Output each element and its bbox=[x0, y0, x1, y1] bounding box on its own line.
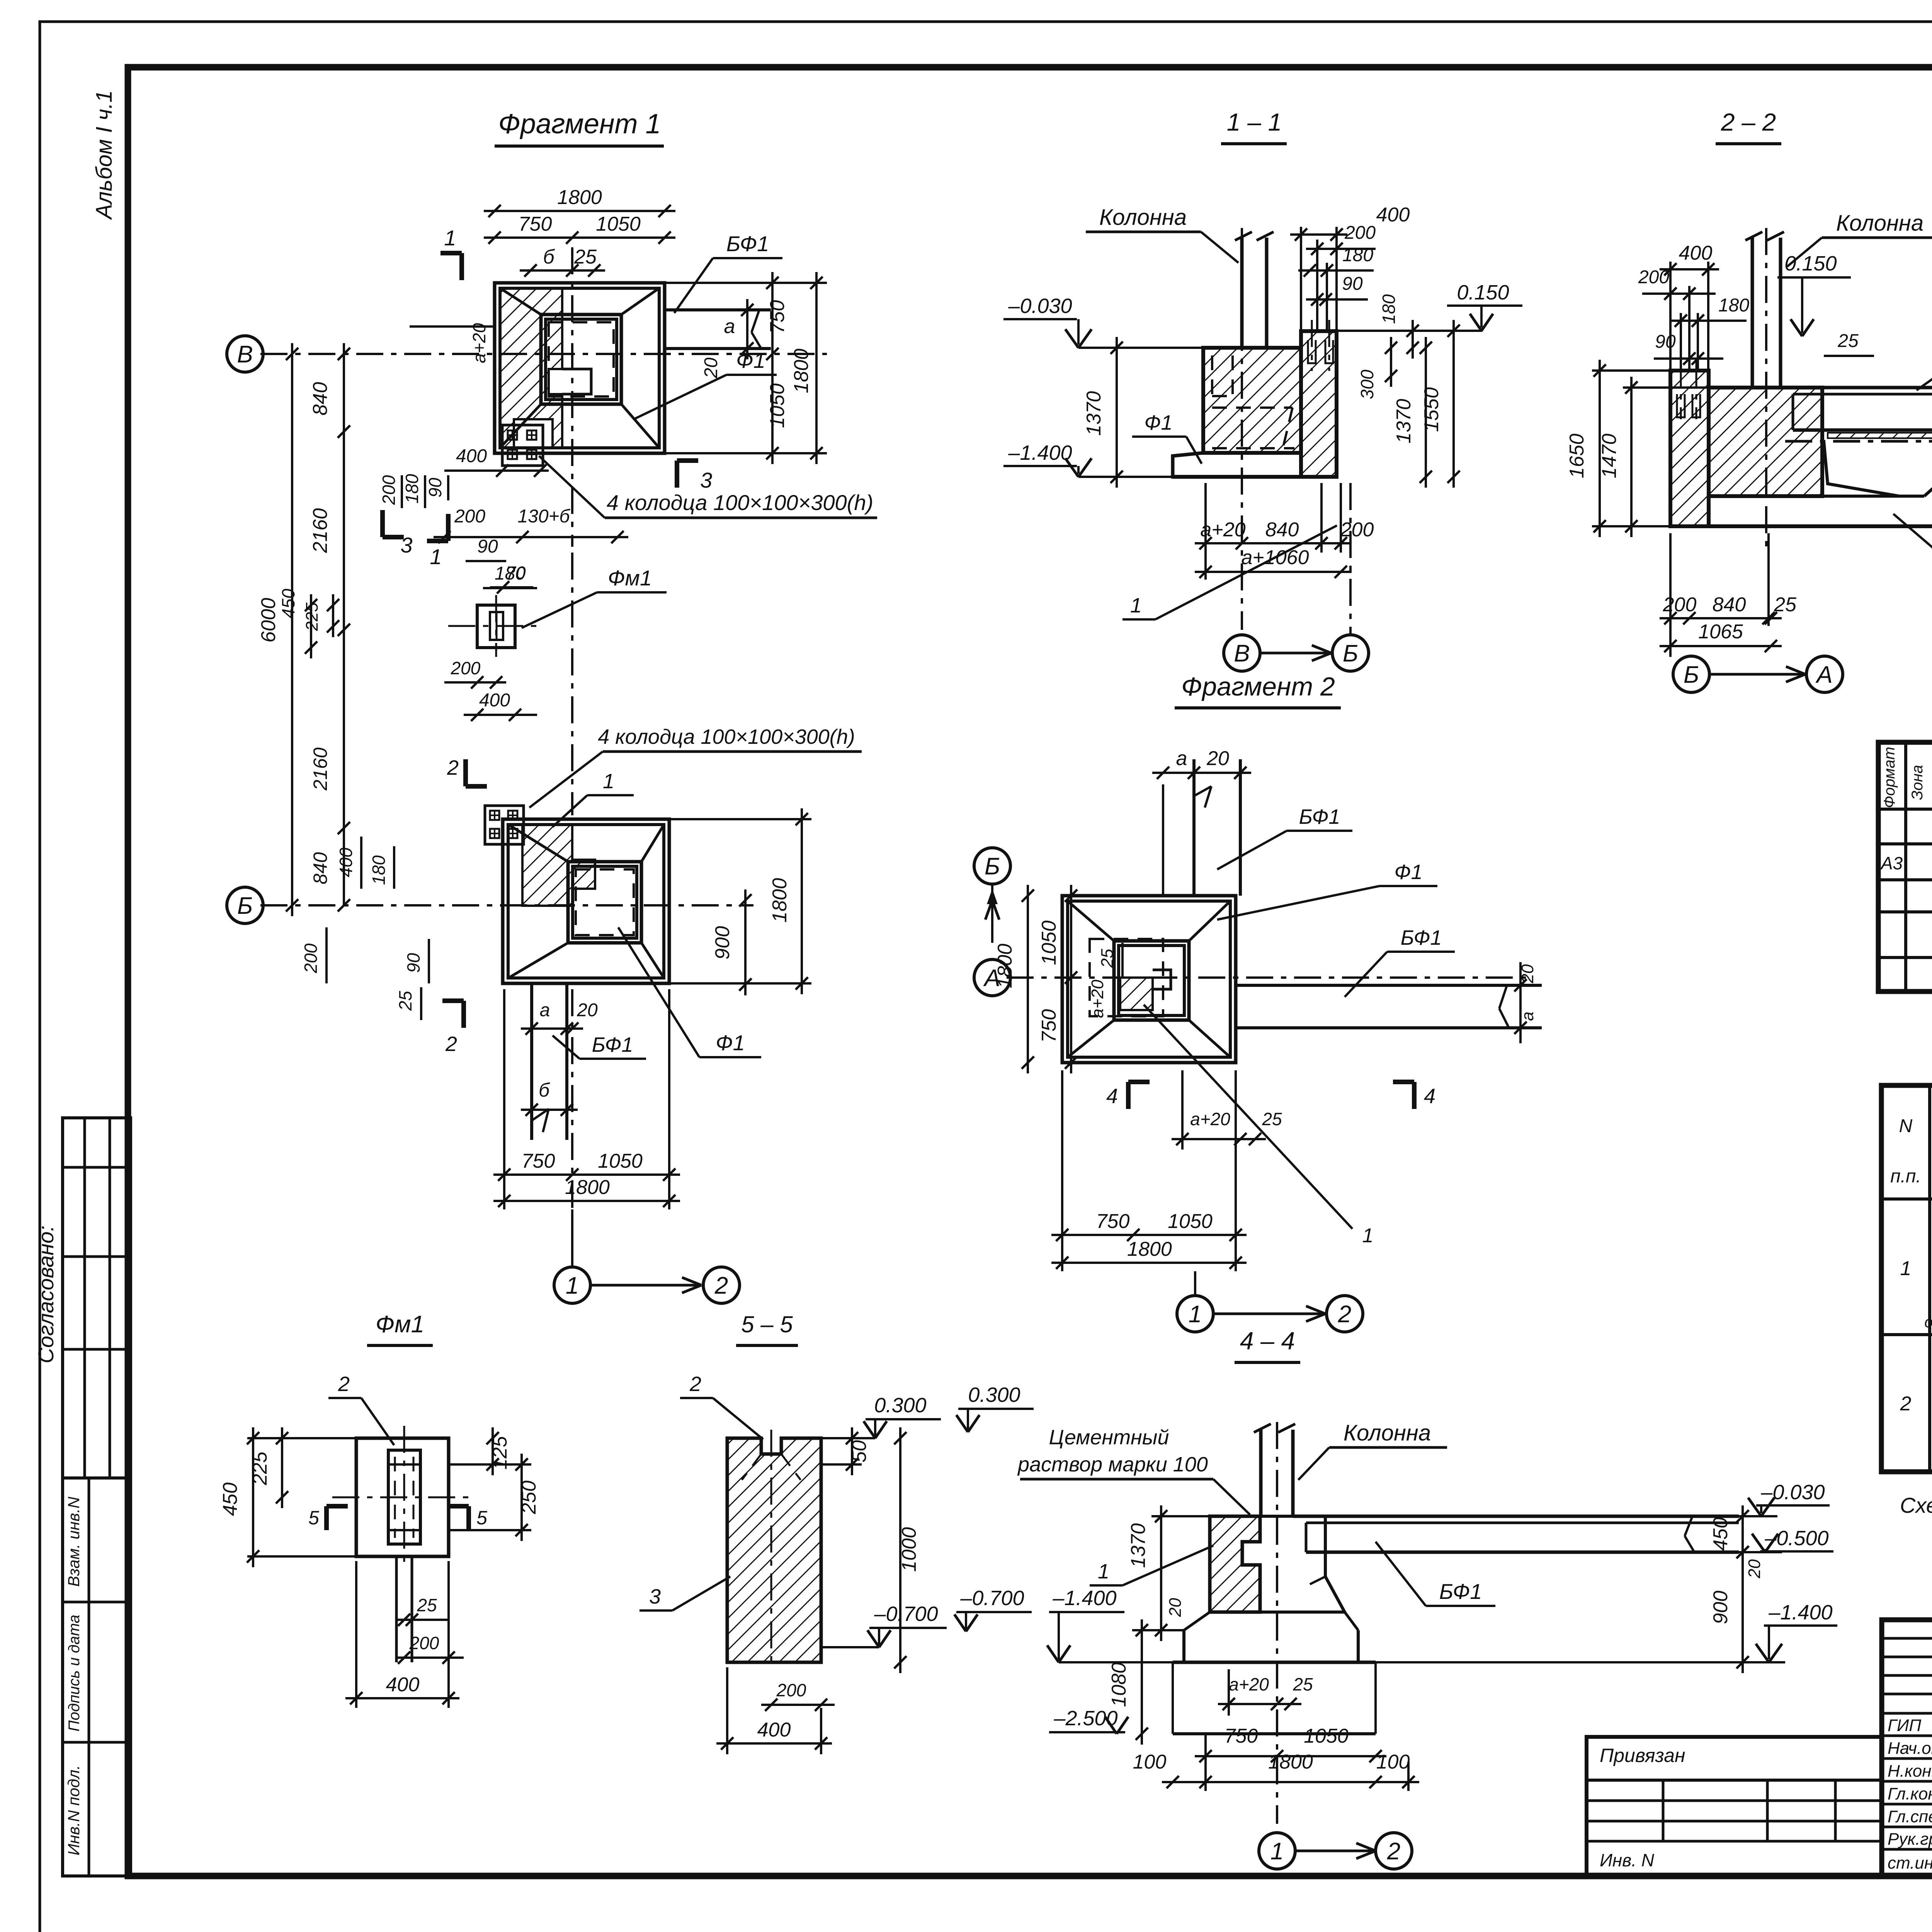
svg-text:а+20: а+20 bbox=[1190, 1109, 1230, 1129]
svg-text:б: б bbox=[543, 246, 555, 268]
beam BF1 to the right upper bbox=[665, 308, 771, 311]
svg-text:2: 2 bbox=[1338, 1301, 1351, 1328]
plan F2 dashed pocket bbox=[1090, 939, 1163, 1016]
svg-text:1800: 1800 bbox=[790, 349, 813, 393]
axis circle A frag2 bbox=[974, 959, 1010, 996]
svg-text:70: 70 bbox=[506, 563, 526, 583]
svg-text:200: 200 bbox=[1638, 267, 1669, 287]
plan F1 lower dashed inner bbox=[576, 869, 634, 935]
svg-text:200: 200 bbox=[379, 475, 399, 505]
axis circles B A 2-2 bbox=[1673, 656, 1709, 692]
svg-text:1050: 1050 bbox=[1168, 1210, 1213, 1233]
dim 900 lower right bbox=[744, 889, 747, 995]
svg-text:4 колодца 100×100×300(h): 4 колодца 100×100×300(h) bbox=[607, 490, 873, 515]
svg-text:4: 4 bbox=[1424, 1085, 1435, 1108]
dim 750 1050 below frag2 bbox=[1051, 1234, 1247, 1236]
svg-text:840: 840 bbox=[310, 852, 331, 884]
svg-text:1800: 1800 bbox=[1268, 1751, 1313, 1773]
svg-text:В: В bbox=[1234, 640, 1250, 667]
dim 50 5-5 bbox=[851, 1427, 853, 1475]
svg-text:100: 100 bbox=[1133, 1751, 1167, 1773]
dim 1065 2-2 bbox=[1660, 645, 1782, 647]
svg-text:450: 450 bbox=[219, 1483, 241, 1516]
left stamp table upper bbox=[63, 1118, 131, 1478]
svg-text:Ф1: Ф1 bbox=[736, 348, 765, 372]
svg-text:900: 900 bbox=[711, 926, 734, 960]
svg-text:Фм1: Фм1 bbox=[608, 566, 652, 590]
svg-text:300: 300 bbox=[1357, 369, 1377, 399]
plan F2 hatch center bbox=[1120, 978, 1153, 1010]
left stamp table lower bbox=[63, 1478, 131, 1876]
svg-text:225: 225 bbox=[249, 1451, 271, 1486]
svg-text:90: 90 bbox=[1655, 332, 1676, 352]
svg-text:Гл.спец.: Гл.спец. bbox=[1888, 1807, 1932, 1826]
svg-text:5: 5 bbox=[476, 1507, 487, 1529]
svg-text:400: 400 bbox=[456, 446, 487, 466]
svg-text:400: 400 bbox=[479, 690, 510, 711]
svg-text:5: 5 bbox=[308, 1507, 319, 1529]
svg-text:–2.500: –2.500 bbox=[1053, 1707, 1117, 1730]
svg-text:450: 450 bbox=[278, 588, 298, 618]
svg-text:2160: 2160 bbox=[310, 747, 331, 791]
anchor bolts 1-1 bbox=[1311, 320, 1313, 371]
svg-text:А3: А3 bbox=[1880, 853, 1903, 873]
svg-text:а+20: а+20 bbox=[1229, 1674, 1269, 1694]
axis A line bbox=[1007, 976, 1526, 979]
dims right 4-4 450 20 900 bbox=[1742, 1505, 1744, 1563]
dim 1000 5-5 bbox=[899, 1427, 901, 1673]
svg-text:БФ1: БФ1 bbox=[726, 231, 769, 256]
section marks 5 5 bbox=[324, 1506, 329, 1530]
svg-text:0.150: 0.150 bbox=[1784, 252, 1837, 275]
dims 750 1050 1800 below lower plan bbox=[493, 1173, 680, 1176]
svg-text:2: 2 bbox=[445, 1032, 457, 1056]
svg-text:А: А bbox=[1815, 662, 1832, 688]
svg-text:1: 1 bbox=[444, 226, 456, 250]
svg-text:0.300: 0.300 bbox=[968, 1383, 1020, 1406]
svg-text:4 колодца 100×100×300(h): 4 колодца 100×100×300(h) bbox=[598, 725, 855, 748]
svg-text:Ф1: Ф1 bbox=[1145, 411, 1173, 434]
svg-text:Схему расположения элементов: Схему расположения элементов фундаментов… bbox=[1900, 1493, 1932, 1517]
svg-text:Фрагмент 2: Фрагмент 2 bbox=[1181, 672, 1335, 701]
svg-text:400: 400 bbox=[757, 1719, 791, 1741]
dashed pocket 1-1 bbox=[1211, 355, 1213, 396]
svg-text:1470: 1470 bbox=[1598, 434, 1621, 478]
axis circles 1 2 4-4 bbox=[1259, 1833, 1295, 1869]
svg-text:90: 90 bbox=[477, 536, 498, 557]
svg-text:Цементный: Цементный bbox=[1049, 1426, 1169, 1449]
title block outline bbox=[1882, 1620, 1932, 1876]
beam BF1 down lower bbox=[530, 983, 533, 1140]
svg-text:750: 750 bbox=[1038, 1009, 1060, 1043]
dims 750 1050 100 1800 4-4 bbox=[1195, 1755, 1386, 1757]
svg-text:1: 1 bbox=[1900, 1257, 1912, 1280]
plan F2 outer square bbox=[1062, 896, 1236, 1063]
svg-text:2160: 2160 bbox=[309, 508, 332, 553]
pedestal taper 4-4 bbox=[1260, 1516, 1345, 1612]
svg-text:0.150: 0.150 bbox=[1457, 281, 1509, 304]
svg-text:раствор марки 100: раствор марки 100 bbox=[1017, 1453, 1208, 1476]
dim 1800 lower right bbox=[801, 808, 803, 994]
svg-text:225: 225 bbox=[303, 602, 321, 631]
dim a right of beam bbox=[746, 299, 748, 359]
bottom dims 1-1 bbox=[1195, 542, 1352, 544]
dim 750 1050 top bbox=[484, 236, 675, 239]
svg-text:a: a bbox=[724, 315, 735, 338]
svg-text:20: 20 bbox=[701, 357, 721, 379]
svg-text:Б: Б bbox=[985, 853, 1000, 880]
svg-text:1: 1 bbox=[1130, 594, 1142, 617]
svg-text:БФ1: БФ1 bbox=[592, 1033, 633, 1056]
svg-text:N: N bbox=[1899, 1116, 1913, 1136]
svg-text:200: 200 bbox=[301, 943, 321, 973]
svg-text:Привязан: Привязан bbox=[1600, 1745, 1685, 1766]
section mark 3 lower-left bbox=[380, 510, 385, 537]
svg-text:25: 25 bbox=[574, 246, 597, 268]
svg-text:1: 1 bbox=[1098, 1560, 1109, 1583]
leader 1 frag2 bbox=[1144, 1005, 1352, 1229]
svg-text:90: 90 bbox=[403, 953, 423, 973]
plan F1 lower hatch monolith bbox=[522, 824, 595, 906]
svg-text:1370: 1370 bbox=[1127, 1523, 1150, 1568]
svg-text:90: 90 bbox=[425, 478, 445, 498]
column 2-2 bbox=[1751, 238, 1754, 388]
svg-text:20: 20 bbox=[577, 1000, 598, 1020]
column axis 4-4 bbox=[1276, 1422, 1278, 1824]
dim a+1060 1-1 bbox=[1195, 571, 1352, 573]
svg-text:180: 180 bbox=[402, 474, 422, 503]
svg-text:200: 200 bbox=[1344, 223, 1376, 243]
svg-text:180: 180 bbox=[1718, 295, 1749, 316]
svg-text:2 – 2: 2 – 2 bbox=[1721, 108, 1776, 136]
svg-text:Взам. инв.N: Взам. инв.N bbox=[65, 1497, 83, 1587]
foundation block 1-1 hatched bbox=[1203, 348, 1301, 453]
svg-text:Гл.констр.: Гл.констр. bbox=[1888, 1784, 1932, 1803]
loads table grid bbox=[1881, 1085, 1932, 1472]
axis B line bbox=[260, 904, 753, 906]
dim 1800 right bbox=[815, 272, 818, 464]
axis circles V B 1-1 bbox=[1224, 635, 1260, 671]
svg-text:1080: 1080 bbox=[1108, 1662, 1130, 1707]
svg-text:750: 750 bbox=[522, 1150, 555, 1172]
svg-text:90: 90 bbox=[1342, 274, 1363, 294]
svg-text:200: 200 bbox=[1663, 594, 1697, 616]
section mark 1 upper bbox=[459, 253, 464, 280]
svg-text:БФ1: БФ1 bbox=[1439, 1579, 1482, 1604]
svg-text:900: 900 bbox=[1709, 1591, 1732, 1624]
svg-text:б: б bbox=[539, 1079, 550, 1101]
privyazan block bbox=[1587, 1737, 1882, 1876]
dim 6000 overall bbox=[291, 343, 293, 916]
svg-text:25: 25 bbox=[395, 991, 415, 1011]
column axis 1-1 bbox=[1241, 228, 1243, 630]
slab 4-4 bbox=[1184, 1630, 1358, 1662]
svg-text:Фм1: Фм1 bbox=[376, 1311, 424, 1338]
svg-text:1 – 1: 1 – 1 bbox=[1227, 108, 1282, 136]
svg-text:Б: Б bbox=[1684, 662, 1699, 688]
Fm1 axes bbox=[332, 1497, 471, 1498]
svg-text:3: 3 bbox=[400, 533, 412, 557]
svg-text:200: 200 bbox=[451, 658, 481, 678]
plan F2 small col square bbox=[1153, 970, 1171, 989]
svg-text:20: 20 bbox=[1166, 1598, 1185, 1617]
svg-text:Инв. N: Инв. N bbox=[1600, 1850, 1655, 1870]
svg-text:Н.контр.: Н.контр. bbox=[1888, 1762, 1932, 1781]
dims 400 200 180 90 top right 1-1 bbox=[1290, 233, 1347, 236]
svg-text:Инв.N подл.: Инв.N подл. bbox=[65, 1765, 83, 1855]
axis circle B bbox=[227, 887, 263, 923]
dim 1050 750 left frag2 bbox=[1070, 885, 1072, 1073]
svg-text:1550: 1550 bbox=[1420, 387, 1443, 432]
svg-text:1050: 1050 bbox=[598, 1150, 643, 1172]
svg-text:Альбом I ч.1: Альбом I ч.1 bbox=[92, 90, 117, 220]
bottom dims 2-2 200 840 25 bbox=[1660, 617, 1782, 619]
svg-text:6000: 6000 bbox=[257, 598, 280, 643]
svg-text:130+б: 130+б bbox=[517, 506, 570, 527]
svg-text:200: 200 bbox=[776, 1680, 806, 1700]
svg-text:–0.030: –0.030 bbox=[1760, 1481, 1825, 1504]
svg-text:Фрагмент 1: Фрагмент 1 bbox=[498, 109, 661, 139]
svg-text:0.300: 0.300 bbox=[874, 1394, 926, 1417]
svg-text:840: 840 bbox=[1265, 519, 1299, 541]
svg-text:20: 20 bbox=[1206, 747, 1229, 770]
svg-text:750: 750 bbox=[766, 300, 789, 334]
svg-text:1050: 1050 bbox=[596, 213, 641, 235]
svg-text:25: 25 bbox=[417, 1595, 437, 1615]
svg-text:200: 200 bbox=[409, 1633, 439, 1653]
svg-text:840: 840 bbox=[309, 382, 332, 416]
svg-text:2: 2 bbox=[338, 1372, 350, 1396]
dim 1800 top bbox=[484, 210, 675, 212]
slab 2-2 bbox=[1822, 495, 1924, 498]
svg-text:Формат: Формат bbox=[1881, 747, 1898, 808]
svg-text:Согласовано:: Согласовано: bbox=[34, 1225, 58, 1363]
embed plate upper plan bbox=[502, 425, 543, 466]
pedestal 4-4 hatched bbox=[1210, 1516, 1260, 1612]
Fm1 plan slot bbox=[490, 612, 503, 640]
section mark 1 lower bbox=[446, 514, 451, 541]
plan F1 upper hatch monolith bbox=[500, 288, 562, 448]
svg-text:400: 400 bbox=[1679, 242, 1713, 264]
axis circle B frag2 bbox=[974, 848, 1010, 884]
axis V line bbox=[260, 353, 827, 355]
svg-text:1000: 1000 bbox=[898, 1527, 920, 1572]
svg-text:Б: Б bbox=[237, 893, 253, 919]
embed plate lower plan bbox=[485, 806, 524, 844]
section mark 2 upper bbox=[463, 759, 468, 786]
Fm1 rod below bbox=[395, 1556, 398, 1662]
svg-text:Колонна: Колонна bbox=[1099, 205, 1187, 230]
svg-text:1370: 1370 bbox=[1083, 391, 1105, 436]
svg-text:180: 180 bbox=[1379, 294, 1399, 324]
pedestal outline 2-2 bbox=[1824, 441, 1899, 496]
svg-text:–1.400: –1.400 bbox=[1008, 441, 1072, 464]
dims 450 225 Fm1 bbox=[310, 594, 312, 658]
anchor bolts 2-2 bbox=[1680, 359, 1682, 419]
svg-text:1: 1 bbox=[603, 770, 614, 793]
pit outline 4-4 bbox=[1172, 1662, 1174, 1734]
axis circles 1 2 frag2 bbox=[1177, 1296, 1213, 1332]
svg-text:200: 200 bbox=[1340, 519, 1374, 541]
dims 125 250 right Fm1 bbox=[492, 1427, 494, 1475]
dim 1800 left frag2 bbox=[1027, 885, 1029, 1073]
5-5 dashed anchors bbox=[742, 1454, 761, 1480]
svg-text:Ф1: Ф1 bbox=[1395, 861, 1423, 884]
svg-text:а: а bbox=[1176, 747, 1187, 770]
svg-text:ГИП: ГИП bbox=[1888, 1716, 1921, 1735]
svg-text:1: 1 bbox=[566, 1272, 579, 1299]
svg-text:В: В bbox=[237, 341, 253, 368]
svg-text:1065: 1065 bbox=[1698, 621, 1743, 643]
svg-text:1800: 1800 bbox=[565, 1176, 610, 1199]
svg-text:400: 400 bbox=[336, 847, 356, 877]
axis circles 1 2 below bbox=[554, 1267, 590, 1303]
svg-text:–0.030: –0.030 bbox=[1008, 294, 1072, 318]
dims 180 300 1370 1550 right 1-1 bbox=[1412, 320, 1414, 359]
svg-text:от: от bbox=[1924, 1314, 1932, 1331]
svg-text:1800: 1800 bbox=[769, 878, 791, 923]
column pocket notch upper bbox=[562, 369, 591, 394]
svg-text:1800: 1800 bbox=[1127, 1238, 1172, 1260]
Fm1 slot detail bbox=[388, 1450, 420, 1544]
5-5 hatched body bbox=[727, 1438, 821, 1662]
svg-text:100: 100 bbox=[1376, 1751, 1410, 1773]
section mark 3 right below plan bbox=[675, 461, 679, 488]
svg-text:2: 2 bbox=[1900, 1393, 1912, 1415]
column 1-1 bbox=[1240, 238, 1244, 348]
plan F1 upper outer square bbox=[495, 283, 665, 453]
section mark 2 lower bbox=[461, 1001, 466, 1028]
dim 400 Fm1 bbox=[345, 1697, 459, 1699]
svg-text:4: 4 bbox=[1106, 1085, 1118, 1108]
dims 1650 1470 left 2-2 bbox=[1599, 360, 1601, 537]
svg-text:750: 750 bbox=[1096, 1210, 1130, 1233]
svg-text:Б: Б bbox=[1343, 640, 1358, 667]
svg-text:2: 2 bbox=[447, 756, 459, 779]
svg-text:–1.400: –1.400 bbox=[1052, 1587, 1116, 1610]
dims left 4-4 1370 20 1080 bbox=[1160, 1505, 1162, 1641]
svg-text:п.п.: п.п. bbox=[1890, 1166, 1921, 1187]
svg-text:1: 1 bbox=[1362, 1225, 1374, 1247]
section marks 4 bbox=[1126, 1082, 1131, 1109]
svg-text:–0.700: –0.700 bbox=[960, 1587, 1024, 1610]
spec table grid bbox=[1878, 742, 1932, 992]
beam BF1 4-4 bbox=[1293, 1515, 1739, 1518]
svg-text:1800: 1800 bbox=[557, 186, 602, 209]
beam BF1 up from plan bbox=[1192, 759, 1196, 896]
svg-text:50: 50 bbox=[848, 1440, 871, 1463]
svg-text:–0.700: –0.700 bbox=[874, 1602, 938, 1626]
foundation block 2-2 hatched bbox=[1709, 388, 1822, 496]
svg-text:а+20: а+20 bbox=[1200, 519, 1245, 541]
dim b 25 top bbox=[520, 269, 605, 272]
dim 1370 left 1-1 bbox=[1116, 337, 1118, 488]
Fm1 plate outline bbox=[356, 1438, 449, 1556]
svg-text:а+20: а+20 bbox=[1088, 980, 1107, 1018]
svg-text:450: 450 bbox=[1709, 1517, 1732, 1551]
svg-text:4 – 4: 4 – 4 bbox=[1240, 1327, 1295, 1355]
svg-text:180: 180 bbox=[1342, 245, 1373, 265]
slab 1-1 bbox=[1173, 453, 1301, 477]
axis circle V bbox=[227, 336, 263, 372]
svg-text:Нач.отд.: Нач.отд. bbox=[1888, 1739, 1932, 1758]
svg-text:ст.инж.: ст.инж. bbox=[1888, 1854, 1932, 1872]
svg-text:25: 25 bbox=[1774, 594, 1797, 616]
svg-text:200: 200 bbox=[454, 506, 485, 527]
svg-text:Ф1: Ф1 bbox=[716, 1031, 745, 1055]
plan F1 lower outer square bbox=[503, 819, 669, 983]
svg-text:БФ1: БФ1 bbox=[1299, 805, 1340, 828]
column 4-4 bbox=[1259, 1430, 1263, 1516]
svg-text:5 – 5: 5 – 5 bbox=[741, 1311, 793, 1337]
svg-text:–1.400: –1.400 bbox=[1768, 1601, 1832, 1624]
dim 750 1050 right bbox=[771, 272, 774, 464]
svg-text:250: 250 bbox=[518, 1481, 540, 1515]
svg-text:25: 25 bbox=[1837, 331, 1859, 351]
svg-text:Колонна: Колонна bbox=[1344, 1420, 1431, 1446]
svg-text:1650: 1650 bbox=[1566, 434, 1588, 478]
wall band 2-2 hatched bbox=[1670, 371, 1709, 526]
svg-text:БФ1: БФ1 bbox=[1401, 926, 1442, 949]
svg-text:25: 25 bbox=[1293, 1674, 1313, 1694]
svg-text:2: 2 bbox=[714, 1272, 728, 1299]
Fm1 plan rect bbox=[477, 605, 515, 648]
svg-text:1: 1 bbox=[1189, 1301, 1202, 1328]
svg-text:a: a bbox=[540, 1000, 550, 1020]
column axis 2-2 bbox=[1765, 228, 1767, 498]
svg-text:Зона: Зона bbox=[1909, 765, 1926, 800]
svg-text:1050: 1050 bbox=[766, 383, 789, 428]
svg-text:Рук.гр.: Рук.гр. bbox=[1888, 1830, 1932, 1849]
svg-text:Колонна: Колонна bbox=[1836, 211, 1923, 236]
dims top 2-2 400 200 180 90 25 bbox=[1660, 268, 1719, 270]
svg-text:2: 2 bbox=[1387, 1838, 1400, 1865]
ledge -0.600 2-2 bbox=[1785, 440, 1932, 443]
svg-text:2: 2 bbox=[689, 1372, 701, 1396]
svg-text:1: 1 bbox=[1270, 1838, 1284, 1865]
svg-text:750: 750 bbox=[1225, 1725, 1258, 1747]
dims 450 225 Fm1 detail bbox=[252, 1427, 254, 1567]
beam BF1 2-2 bbox=[1781, 386, 1932, 389]
svg-text:180: 180 bbox=[369, 855, 389, 885]
svg-text:а+1060: а+1060 bbox=[1242, 546, 1309, 569]
Fm1 plan axes bbox=[448, 625, 537, 627]
svg-text:1: 1 bbox=[430, 544, 442, 569]
svg-text:3: 3 bbox=[649, 1585, 661, 1608]
dim 840 axis chain upper bbox=[343, 343, 345, 641]
svg-text:750: 750 bbox=[519, 213, 552, 235]
svg-text:а+20: а+20 bbox=[469, 323, 489, 363]
dim 1800 below frag2 bbox=[1051, 1262, 1247, 1264]
dim 400 5-5 bbox=[716, 1742, 832, 1745]
wall band 1-1 hatched bbox=[1301, 331, 1337, 477]
svg-text:25: 25 bbox=[1098, 949, 1117, 968]
svg-text:400: 400 bbox=[386, 1673, 420, 1696]
dim a 20 top frag2 bbox=[1152, 772, 1251, 774]
plan F1 upper inner dashed square bbox=[549, 322, 614, 396]
svg-text:1370: 1370 bbox=[1393, 399, 1415, 444]
svg-text:3: 3 bbox=[700, 468, 712, 492]
svg-text:1050: 1050 bbox=[1038, 920, 1060, 965]
svg-text:25: 25 bbox=[1262, 1109, 1282, 1129]
svg-text:400: 400 bbox=[1376, 204, 1410, 226]
svg-text:Подпись и дата: Подпись и дата bbox=[66, 1615, 83, 1732]
beam BF1 right from plan bbox=[1236, 984, 1542, 987]
svg-text:840: 840 bbox=[1713, 594, 1746, 616]
svg-text:1050: 1050 bbox=[1304, 1725, 1349, 1747]
svg-text:20: 20 bbox=[1745, 1559, 1764, 1578]
svg-text:1800: 1800 bbox=[994, 944, 1016, 988]
